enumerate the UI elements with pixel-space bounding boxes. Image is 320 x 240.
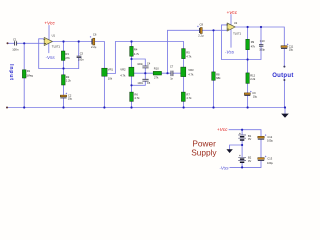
node PSU mid battery: [241, 144, 243, 146]
svg-text:4.7k: 4.7k: [134, 96, 140, 100]
svg-text:Input: Input: [8, 64, 14, 81]
svg-text:+Vcc: +Vcc: [44, 21, 55, 26]
op-amp U1: [43, 34, 60, 49]
svg-text:100p: 100p: [259, 48, 265, 52]
wire C8 to U2 + input: [203, 29, 228, 31]
svg-text:+Vcc: +Vcc: [217, 127, 228, 132]
capacitor C7: [171, 71, 173, 77]
resistor R7: [181, 92, 185, 101]
resistor R4: [130, 46, 134, 56]
wire C6 to volume pot: [95, 42, 105, 108]
battery B1: [238, 133, 252, 141]
svg-text:-Vss: -Vss: [46, 55, 56, 60]
wire U2 V- stub: [230, 29, 232, 48]
node PSU bottom battery: [241, 166, 243, 168]
wire PSU mid to ground: [230, 145, 243, 149]
resistor R9: [246, 39, 250, 49]
svg-text:C5: C5: [147, 81, 151, 85]
svg-text:Output: Output: [272, 73, 293, 79]
svg-text:B1: B1: [248, 134, 252, 138]
svg-text:27k: 27k: [65, 56, 70, 60]
wire ground rail: [7, 107, 285, 109]
svg-text:Supply: Supply: [191, 148, 217, 158]
svg-text:100n: 100n: [78, 58, 84, 62]
svg-text:B2: B2: [248, 156, 252, 160]
svg-text:R4: R4: [134, 48, 138, 52]
potentiometer VR2: [120, 67, 134, 77]
node PSU top battery: [241, 129, 243, 131]
wire tap up to C8: [168, 30, 200, 73]
svg-text:2.2µ: 2.2µ: [198, 34, 204, 38]
capacitor C10: [259, 45, 263, 47]
svg-text:4.7k: 4.7k: [188, 73, 194, 77]
svg-text:VR2: VR2: [120, 68, 126, 72]
svg-text:R1: R1: [27, 69, 31, 73]
op-amp U2: [226, 21, 241, 35]
svg-text:100n: 100n: [12, 48, 19, 52]
svg-text:2.2k: 2.2k: [250, 77, 256, 81]
wire top tone cap row: [132, 59, 146, 73]
svg-text:R6: R6: [134, 93, 138, 97]
wire PSU right vertical between caps: [260, 140, 262, 168]
wire U1 V- stub: [48, 43, 50, 53]
node U1 output C3: [78, 40, 80, 42]
svg-text:R5: R5: [186, 50, 190, 54]
svg-text:C9: C9: [252, 91, 256, 95]
node U1 output R3: [62, 40, 64, 42]
node U2 output R9: [247, 26, 249, 28]
terminal output ground: [283, 79, 285, 81]
wire U2 output: [235, 27, 284, 46]
capacitor C1: [15, 41, 17, 45]
svg-text:-Vss: -Vss: [225, 49, 235, 54]
svg-text:C3: C3: [80, 51, 84, 55]
resistor R5: [182, 49, 186, 59]
resistor R8: [212, 72, 216, 80]
svg-text:TL071: TL071: [233, 31, 241, 35]
capacitor C6 electrolytic: [90, 32, 97, 49]
terminal output signal: [283, 66, 285, 68]
wire U1 V+ stub: [48, 25, 50, 39]
svg-text:C4: C4: [147, 61, 151, 65]
wire U1 feedback loop: [39, 39, 79, 69]
node rail R8: [212, 106, 214, 108]
svg-text:27k: 27k: [154, 76, 159, 80]
wire C7 to VR3: [173, 72, 180, 74]
svg-text:U1: U1: [52, 34, 56, 38]
capacitor C3: [77, 56, 82, 57]
svg-text:4.7k: 4.7k: [186, 55, 192, 59]
svg-text:C10: C10: [260, 39, 265, 43]
svg-text:R7: R7: [186, 93, 190, 97]
wire bottom tone cap row: [132, 73, 146, 85]
node rail C2: [62, 106, 64, 108]
node feedback B: [62, 67, 64, 69]
wire U1 output: [52, 41, 92, 43]
resistor R10: [153, 71, 161, 75]
battery B2: [238, 155, 252, 163]
resistor R2: [62, 75, 66, 85]
capacitor C11 electrolytic: [281, 44, 294, 52]
capacitor C9 electrolytic: [244, 91, 257, 99]
svg-text:47k: 47k: [251, 44, 256, 48]
capacitor C12 electrolytic: [258, 134, 274, 142]
svg-text:C7: C7: [170, 65, 174, 69]
svg-text:R8: R8: [216, 72, 220, 76]
resistor R3: [61, 51, 65, 60]
svg-text:R9: R9: [251, 40, 255, 44]
wire ground stem right: [284, 108, 286, 114]
svg-text:10µ: 10µ: [289, 48, 294, 52]
node input junction: [23, 42, 25, 44]
svg-text:9V: 9V: [248, 159, 251, 163]
wire battery chain B1: [241, 130, 243, 145]
node R10 C7 tap: [166, 72, 168, 74]
node wiper caps: [144, 72, 146, 74]
svg-text:+Vcc: +Vcc: [227, 10, 238, 15]
wire PSU bottom rail: [230, 166, 261, 168]
svg-text:R2: R2: [66, 75, 70, 79]
svg-text:100n: 100n: [137, 81, 143, 85]
svg-text:TL071: TL071: [52, 45, 61, 49]
svg-text:C8: C8: [200, 23, 204, 27]
svg-text:100µ: 100µ: [267, 161, 273, 165]
svg-text:100µ: 100µ: [267, 138, 273, 142]
potentiometer VR3: [181, 67, 194, 77]
wire battery chain B2: [241, 145, 243, 167]
svg-text:VR1: VR1: [108, 67, 114, 71]
wire C3 branch: [78, 42, 80, 69]
node middle chain upper: [130, 58, 132, 60]
node feedback B2: [247, 58, 249, 60]
node rail R7: [183, 106, 185, 108]
wire R2 C2 branch: [63, 69, 65, 108]
resistor R1: [22, 70, 26, 78]
wire middle tone chain: [131, 42, 133, 108]
resistor R12: [246, 73, 249, 84]
wire C1 to U1 + input: [17, 42, 43, 44]
node middle chain lower: [130, 84, 132, 86]
node U2 plus input: [212, 29, 214, 31]
node rail volume: [103, 106, 105, 108]
svg-text:2.2µ: 2.2µ: [91, 45, 97, 49]
svg-text:C13: C13: [267, 157, 272, 161]
svg-text:C1: C1: [13, 37, 17, 41]
svg-text:4.7k: 4.7k: [120, 74, 126, 78]
wire PSU top rail: [229, 130, 261, 136]
wire U2 feedback loop: [222, 25, 262, 60]
resistor R6: [130, 92, 134, 101]
node rail C9: [247, 106, 249, 108]
capacitor C4: [142, 66, 148, 68]
svg-text:100n: 100n: [137, 62, 143, 66]
ground PSU: [226, 149, 232, 153]
svg-text:10k: 10k: [108, 76, 113, 80]
svg-text:4.7k: 4.7k: [134, 52, 140, 56]
svg-text:R10: R10: [154, 67, 159, 71]
wire R9 C10 branch: [247, 27, 249, 60]
svg-text:9V: 9V: [248, 137, 251, 141]
svg-text:68k: 68k: [216, 76, 221, 80]
node rail R1: [23, 106, 25, 108]
svg-text:10µ: 10µ: [253, 95, 258, 99]
svg-text:2.2k: 2.2k: [66, 79, 72, 83]
wire R10 to C7: [162, 72, 171, 74]
svg-text:4.7k: 4.7k: [186, 96, 192, 100]
capacitor C2 electrolytic: [60, 93, 72, 101]
wire R8 branch: [213, 30, 215, 107]
wire input to C1: [8, 42, 15, 44]
terminal input: [7, 42, 9, 44]
wire output ground pin: [283, 80, 285, 108]
wire wiper row to R10: [134, 72, 153, 74]
wire volume wiper to tone network: [107, 42, 183, 108]
svg-text:VR3: VR3: [188, 68, 194, 72]
svg-text:10µ: 10µ: [68, 97, 73, 101]
capacitor C13 electrolytic: [258, 156, 274, 165]
wire R12 C9 branch: [247, 60, 249, 108]
wire C11 to output terminal: [283, 49, 285, 67]
capacitor C5: [142, 79, 148, 81]
wire R3 branch: [63, 42, 65, 69]
svg-text:U2: U2: [234, 21, 238, 25]
potentiometer VR1: [102, 67, 114, 80]
node rail R6: [130, 106, 132, 108]
wire R1 chain vertical: [23, 43, 25, 107]
wire U2 V+ stub: [230, 15, 232, 26]
node tone top middle: [130, 40, 132, 42]
node U2 output C10: [260, 26, 262, 28]
terminal rail left: [6, 107, 8, 109]
capacitor C8 electrolytic: [197, 23, 204, 38]
node rail ground: [284, 106, 286, 108]
svg-text:R12: R12: [250, 74, 255, 78]
svg-text:-Vss: -Vss: [219, 166, 229, 171]
ground rail right: [281, 114, 289, 118]
svg-text:1Meg: 1Meg: [26, 73, 33, 77]
svg-text:R3: R3: [65, 52, 69, 56]
svg-text:C6: C6: [93, 32, 97, 36]
